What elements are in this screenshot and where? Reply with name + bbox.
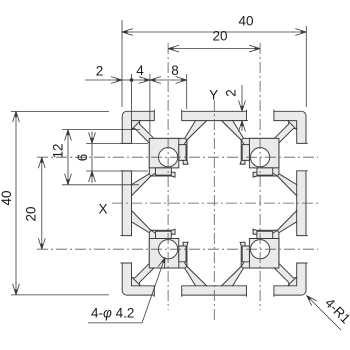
dim 4/8: extension line at slot edge bbox=[149, 74, 151, 133]
dim 8: right extension line bbox=[186, 74, 188, 109]
hole top-left (phi 4.2) bbox=[159, 148, 178, 167]
dim 2/4/8 chain: dimension line bbox=[85, 79, 187, 81]
profile body: 40x40 aluminium extrusion cross-section bbox=[121, 110, 308, 297]
arrow dim20-top right bbox=[249, 45, 260, 52]
dim 6: dimension line bbox=[91, 132, 93, 184]
arrow dim2-wall down bbox=[239, 100, 246, 111]
svg-text:4-R1: 4-R1 bbox=[322, 295, 350, 326]
svg-text:2: 2 bbox=[224, 89, 239, 97]
arrow leader 4-R1 bbox=[304, 293, 317, 306]
arrow dim4 right / dim8 left pair bbox=[139, 77, 150, 84]
hole bottom-left (phi 4.2) bbox=[159, 240, 178, 259]
arrow dim12 top bbox=[65, 130, 72, 141]
outer silhouette 40x40 with R1 rounded corners bbox=[122, 111, 306, 295]
svg-text:20: 20 bbox=[24, 206, 39, 221]
dim 6: bottom extension line bbox=[86, 170, 148, 172]
arrow dim2 at profile edge bbox=[111, 77, 122, 84]
svg-text:4: 4 bbox=[136, 63, 144, 78]
arrow dim20-left bottom bbox=[38, 238, 45, 249]
dim 40 top: left extension line bbox=[121, 20, 123, 107]
arrow dim40-top left bbox=[122, 29, 133, 36]
dim 40 left: bottom extension line bbox=[11, 294, 109, 296]
dim 12: dimension line bbox=[67, 130, 69, 185]
upper slot horizontal centerline bbox=[37, 156, 318, 158]
svg-text:2: 2 bbox=[96, 64, 104, 79]
arrow dim20-left top bbox=[38, 157, 45, 168]
dim 2 wall: upper arrow tail bbox=[241, 85, 243, 111]
dim 2 wall: extension line bbox=[228, 120, 248, 122]
leader 4-phi4.2: leader line to hole bbox=[142, 257, 165, 323]
svg-text:6: 6 bbox=[75, 154, 90, 162]
svg-text:4-φ 4.2: 4-φ 4.2 bbox=[91, 306, 134, 321]
svg-text:12: 12 bbox=[51, 143, 66, 158]
arrow dim8 right bbox=[176, 77, 187, 84]
dim 20 left: dimension line bbox=[41, 157, 43, 249]
svg-text:X: X bbox=[98, 202, 107, 217]
left slot vertical centerline bbox=[167, 43, 169, 310]
dim 40 left: dimension line bbox=[15, 111, 17, 295]
dim 6: top extension line bbox=[86, 142, 148, 144]
lower slot horizontal centerline bbox=[37, 248, 318, 250]
dim 12: bottom extension line bbox=[62, 184, 139, 186]
Y axis centerline bbox=[213, 100, 215, 322]
hole top-right (phi 4.2) bbox=[251, 148, 270, 167]
arrow dim20-top left bbox=[168, 45, 179, 52]
right slot vertical centerline bbox=[259, 43, 261, 310]
central cavity bbox=[132, 121, 297, 286]
hole bottom-right (phi 4.2) bbox=[251, 240, 270, 259]
svg-text:40: 40 bbox=[238, 14, 253, 29]
leader 4-R1: leader line to corner bbox=[307, 296, 342, 331]
arrow dim12 bottom bbox=[65, 174, 72, 185]
leader 4-phi4.2: underline bbox=[88, 322, 142, 324]
arrow dim2-wall up bbox=[239, 121, 246, 132]
tick dot at 2mm point bbox=[130, 78, 134, 82]
dim 2/4/8: extension line at 2mm bbox=[131, 74, 133, 125]
arrow dim6 top bbox=[89, 132, 96, 143]
dim 12: top extension line bbox=[62, 129, 140, 131]
dim 20 top: dimension line bbox=[168, 48, 260, 50]
svg-text:Y: Y bbox=[209, 88, 218, 103]
arrow dim40-left bottom bbox=[13, 284, 20, 295]
arrow dim40-left top bbox=[13, 111, 20, 122]
svg-text:40: 40 bbox=[0, 190, 14, 205]
svg-text:20: 20 bbox=[212, 29, 227, 44]
X axis centerline bbox=[112, 202, 318, 204]
dim 40 top: right extension line bbox=[305, 26, 307, 107]
svg-text:8: 8 bbox=[171, 63, 179, 78]
arrow dim6 bottom bbox=[89, 171, 96, 182]
arrow leader 4-phi4.2 bbox=[158, 256, 168, 269]
eight T-slot cavities bbox=[121, 110, 308, 297]
arrow dim40-top right bbox=[295, 29, 306, 36]
dim 40 top: dimension line bbox=[122, 31, 306, 33]
internal webs, bosses and nubs (4 quadrants) bbox=[132, 121, 297, 286]
dim 40 left: top extension line bbox=[11, 110, 109, 112]
dim 2 wall: lower arrow tail bbox=[241, 121, 243, 131]
